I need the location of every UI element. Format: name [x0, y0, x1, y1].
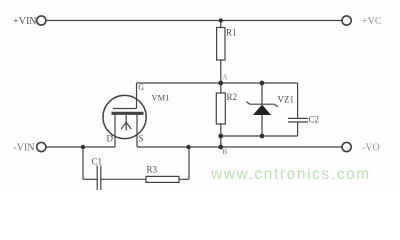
- svg-text:+VIN: +VIN: [13, 16, 36, 27]
- svg-text:R1: R1: [226, 28, 237, 38]
- svg-text:A: A: [222, 73, 228, 82]
- svg-text:C2: C2: [309, 115, 320, 125]
- svg-text:+VC: +VC: [362, 16, 382, 27]
- svg-text:VM1: VM1: [152, 93, 170, 103]
- svg-text:G: G: [138, 83, 144, 92]
- svg-text:R2: R2: [227, 92, 238, 102]
- svg-text:R3: R3: [147, 165, 158, 175]
- svg-text:VZ1: VZ1: [278, 95, 295, 105]
- svg-text:D: D: [107, 134, 114, 144]
- svg-text:www.cntronics.com: www.cntronics.com: [210, 166, 371, 183]
- svg-text:S: S: [139, 134, 144, 144]
- svg-text:-VO: -VO: [362, 143, 380, 154]
- svg-text:C1: C1: [92, 157, 103, 167]
- svg-text:-VIN: -VIN: [13, 143, 34, 154]
- svg-text:B: B: [222, 147, 227, 156]
